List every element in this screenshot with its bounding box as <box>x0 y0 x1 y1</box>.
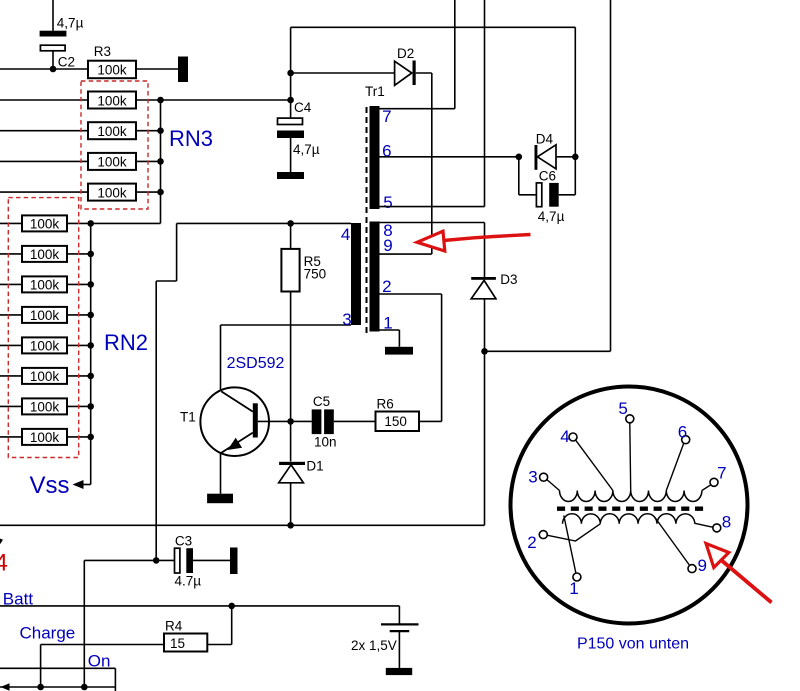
P150 terminal 4 <box>569 433 577 441</box>
svg-text:R6: R6 <box>377 397 394 412</box>
battery 2x 1,5V <box>381 624 419 675</box>
resistor RN2-6 100k <box>22 368 67 384</box>
node D4 left <box>516 154 523 161</box>
wire <box>136 160 161 162</box>
wire (pin 5) <box>380 206 485 208</box>
capacitor C6 <box>536 183 558 207</box>
svg-text:7: 7 <box>382 107 391 126</box>
wire <box>156 280 176 282</box>
node base/R5/C5/D1 <box>287 418 294 425</box>
diode D4 <box>535 145 557 170</box>
svg-text:4: 4 <box>341 225 350 244</box>
wire <box>193 559 230 561</box>
wire <box>574 27 576 157</box>
wire <box>67 375 91 377</box>
resistor R6 <box>376 412 420 432</box>
node C2/R3 junction <box>50 66 57 73</box>
wire (T1 collector) <box>220 325 222 391</box>
svg-text:D4: D4 <box>536 132 554 147</box>
resistor RN3-2 100k <box>88 122 136 139</box>
wire <box>83 560 85 687</box>
wire (pin 1) <box>380 329 400 331</box>
wire (RN2 input 8) <box>0 436 22 438</box>
wire <box>484 0 486 207</box>
wire (P150 pin 7 lead) <box>702 485 711 491</box>
wire <box>290 223 292 249</box>
wire (RN3 input 1) <box>0 99 88 101</box>
resistor RN2-3 100k <box>22 276 67 292</box>
wire (pin 6) <box>380 156 519 158</box>
svg-text:100k: 100k <box>97 155 127 170</box>
arrow (bottom rail, off-page left) <box>1 683 10 690</box>
junction <box>157 158 164 165</box>
svg-text:100k: 100k <box>30 217 60 232</box>
wire (On line) <box>0 667 115 669</box>
svg-text:100k: 100k <box>30 400 60 415</box>
svg-text:3: 3 <box>342 310 351 329</box>
svg-text:D3: D3 <box>500 272 517 287</box>
wire (pin 3 line) <box>221 324 352 326</box>
wire <box>519 194 537 196</box>
wire (P150 pin 1 lead) <box>564 516 576 574</box>
svg-text:RN2: RN2 <box>104 330 148 355</box>
wire (top horizontal) <box>291 26 576 28</box>
wire <box>484 299 486 352</box>
svg-text:100k: 100k <box>30 308 60 323</box>
wire <box>176 223 178 281</box>
transformer Tr1 secondary winding bar (pins 8-9-2-1) <box>370 222 380 332</box>
RN3 outline (dashed) <box>81 81 148 209</box>
wire (T1 emitter) <box>220 453 222 494</box>
terminal bar (R3 output) <box>178 57 188 83</box>
capacitor C5 <box>312 409 334 434</box>
wire <box>291 420 312 422</box>
svg-text:2x 1,5V: 2x 1,5V <box>351 638 397 653</box>
svg-text:150: 150 <box>384 414 407 429</box>
wire (D2 cathode) <box>416 72 432 74</box>
svg-text:750: 750 <box>304 266 327 281</box>
svg-text:100k: 100k <box>30 430 60 445</box>
node R5 top <box>287 220 294 227</box>
svg-text:4,7µ: 4,7µ <box>57 15 84 30</box>
wire <box>136 130 161 132</box>
junction <box>87 403 94 410</box>
transformer Tr1 secondary winding bar (pins 7-6-5) <box>370 106 380 209</box>
diode D1 <box>279 462 305 483</box>
wire <box>290 484 292 526</box>
wire (D2 anode) <box>291 72 395 74</box>
P150 terminal 8 <box>713 524 721 532</box>
wire (T1 base) <box>258 420 291 422</box>
svg-text:10n: 10n <box>314 434 337 449</box>
junction <box>87 220 94 227</box>
wire <box>67 314 91 316</box>
wire <box>398 606 400 625</box>
resistor R3 <box>88 61 136 78</box>
ground (pin 1) <box>385 347 413 355</box>
wire (right vertical) <box>610 0 612 351</box>
wire <box>67 405 91 407</box>
svg-text:RN3: RN3 <box>169 126 213 151</box>
wire (RN2 input 1) <box>0 222 22 224</box>
svg-text:5: 5 <box>618 399 627 418</box>
P150 terminal 1 <box>573 573 581 581</box>
P150 terminal 3 <box>540 473 548 481</box>
node <box>81 684 88 691</box>
wire (P150 pin 3 lead) <box>547 479 560 490</box>
terminal bar (C3 output) <box>230 548 238 575</box>
wire <box>290 73 292 118</box>
svg-text:C3: C3 <box>175 534 192 549</box>
junction <box>157 127 164 134</box>
P150 terminal 5 <box>626 415 634 423</box>
svg-text:C4: C4 <box>294 100 312 115</box>
resistor RN3-1 100k <box>88 92 136 109</box>
wire <box>431 73 433 254</box>
junction <box>157 189 164 196</box>
wire <box>290 292 292 422</box>
node C3 junction <box>153 557 160 564</box>
wire <box>155 281 157 560</box>
wire (RN2 input 2) <box>0 253 22 255</box>
wire <box>556 156 575 158</box>
ground (C4) <box>277 172 304 179</box>
node Batt/R4 <box>228 603 235 610</box>
node D1 bottom <box>287 522 294 529</box>
wire (RN3 input 3) <box>0 160 88 162</box>
wire (Batt line) <box>0 605 399 607</box>
wire <box>484 351 486 525</box>
wire <box>518 157 520 195</box>
wire (RN2 input 6) <box>0 375 22 377</box>
wire (RN2 input 3) <box>0 283 22 285</box>
wire (RN3 input 4) <box>0 191 88 193</box>
wire (RN3 input 2) <box>0 130 88 132</box>
wire (P150 pin 6 lead) <box>666 443 684 491</box>
wire <box>419 420 442 422</box>
svg-text:3: 3 <box>528 467 537 486</box>
junction <box>87 342 94 349</box>
transistor T1 2SD592 <box>200 387 269 456</box>
wire <box>0 68 88 70</box>
transformer Tr1 primary winding bar (pins 4-3) <box>351 223 361 325</box>
svg-text:D2: D2 <box>397 46 414 61</box>
P150 top winding <box>560 491 702 502</box>
svg-text:1: 1 <box>569 579 578 598</box>
ground (T1 emitter) <box>207 494 233 504</box>
P150 terminal 2 <box>539 531 547 539</box>
junction <box>87 373 94 380</box>
svg-text:4.7µ: 4.7µ <box>175 574 202 589</box>
node D3 bottom <box>481 348 488 355</box>
wire (pin 7) <box>380 108 455 110</box>
wire <box>574 157 576 195</box>
node C4 / RN3 line <box>287 97 294 104</box>
label (cropped tick) <box>0 539 3 545</box>
wire <box>290 27 292 73</box>
wire (long horizontal) <box>0 524 485 526</box>
svg-text:100k: 100k <box>97 63 127 78</box>
junction <box>87 434 94 441</box>
svg-text:4,7µ: 4,7µ <box>538 209 565 224</box>
junction <box>87 312 94 319</box>
wire <box>84 559 156 561</box>
svg-text:100k: 100k <box>97 124 127 139</box>
wire (pin 9) <box>380 253 432 255</box>
wire (RN2 input 4) <box>0 314 22 316</box>
P150 terminal 9 <box>688 565 696 573</box>
svg-text:D1: D1 <box>306 458 323 473</box>
wire <box>136 68 178 70</box>
resistor RN2-1 100k <box>22 215 67 231</box>
wire <box>207 644 231 646</box>
wire (RN3 common bus) <box>160 100 162 223</box>
wire (P150 pin 2 lead) <box>547 524 600 541</box>
wire (RN2 input 5) <box>0 344 22 346</box>
capacitor C3 <box>175 548 194 573</box>
Vss arrow <box>73 480 91 489</box>
junction <box>157 97 164 104</box>
capacitor C2 <box>40 0 67 69</box>
resistor RN2-2 100k <box>22 246 67 262</box>
svg-text:Tr1: Tr1 <box>365 84 385 99</box>
svg-text:2SD592: 2SD592 <box>227 355 285 372</box>
wire <box>441 294 443 421</box>
wire <box>67 436 91 438</box>
wire <box>398 330 400 347</box>
resistor RN3-3 100k <box>88 153 136 170</box>
svg-text:5: 5 <box>383 193 392 212</box>
wire (P150 pin 4 lead) <box>576 440 613 491</box>
P150 terminal 7 <box>710 478 718 486</box>
svg-text:9: 9 <box>383 236 392 255</box>
P150 bottom winding <box>563 514 695 524</box>
junction <box>87 251 94 258</box>
diode D3 <box>471 277 496 299</box>
wire <box>136 191 161 193</box>
annotation arrow (points at P150 pin 8) <box>706 544 772 603</box>
svg-text:Vss: Vss <box>30 472 70 499</box>
resistor RN2-4 100k <box>22 307 67 323</box>
svg-text:T1: T1 <box>180 409 196 424</box>
resistor RN2-5 100k <box>22 337 67 353</box>
wire <box>161 99 291 101</box>
svg-text:4: 4 <box>0 550 8 577</box>
svg-text:4,7µ: 4,7µ <box>293 142 320 157</box>
node C4 top / D2 anode <box>287 70 294 77</box>
wire (P150 pin 5 lead) <box>629 423 632 491</box>
capacitor C4 <box>277 118 304 138</box>
svg-text:2: 2 <box>527 533 536 552</box>
svg-text:100k: 100k <box>97 93 127 108</box>
svg-text:C2: C2 <box>58 54 75 69</box>
P150 transformer bottom-view circle <box>511 387 748 624</box>
svg-text:R4: R4 <box>165 618 183 633</box>
svg-text:100k: 100k <box>30 339 60 354</box>
wire <box>67 344 91 346</box>
resistor R5 <box>281 249 299 292</box>
wire (RN2 common bus) <box>90 223 92 484</box>
svg-text:C6: C6 <box>539 168 556 183</box>
RN2 outline (dashed) <box>8 198 78 458</box>
wire <box>156 559 174 561</box>
wire (pin 2) <box>380 293 442 295</box>
wire <box>136 99 161 101</box>
wire <box>334 420 376 422</box>
wire <box>290 138 292 172</box>
P150 terminal 6 <box>682 436 690 444</box>
svg-text:6: 6 <box>678 422 687 441</box>
wire <box>454 0 456 109</box>
wire (pin 8) <box>380 222 485 224</box>
P150 core (dashed) <box>557 507 706 511</box>
wire <box>559 194 576 196</box>
wire <box>485 350 611 352</box>
svg-text:C5: C5 <box>313 394 330 409</box>
svg-text:Charge: Charge <box>20 624 76 643</box>
wire <box>67 283 91 285</box>
resistor R4 <box>164 634 207 652</box>
node D4 right <box>572 154 579 161</box>
svg-text:R3: R3 <box>94 44 111 59</box>
svg-text:100k: 100k <box>97 185 127 200</box>
wire <box>67 222 161 224</box>
svg-text:9: 9 <box>698 556 707 575</box>
svg-text:8: 8 <box>722 512 731 531</box>
svg-text:100k: 100k <box>30 278 60 293</box>
svg-text:P150 von unten: P150 von unten <box>577 636 689 653</box>
wire (RN2 input 7) <box>0 405 22 407</box>
wire (P150 pin 9 lead) <box>655 518 690 566</box>
wire <box>114 668 116 691</box>
svg-text:15: 15 <box>170 636 185 651</box>
junction <box>87 281 94 288</box>
wire <box>290 421 292 461</box>
transformer Tr1 core (dashed) <box>366 107 368 334</box>
node <box>37 684 44 691</box>
wire <box>484 223 486 278</box>
wire <box>67 253 91 255</box>
diode D2 <box>395 61 416 86</box>
svg-text:100k: 100k <box>30 247 60 262</box>
svg-text:6: 6 <box>382 142 391 161</box>
wire (P150 pin 8 lead) <box>695 523 713 527</box>
wire (bottom rail) <box>0 686 115 688</box>
wire <box>231 606 233 645</box>
annotation arrow (points at pins 8/9) <box>417 231 531 251</box>
wire (Charge line) <box>41 644 164 646</box>
svg-text:7: 7 <box>717 463 726 482</box>
resistor RN2-8 100k <box>22 429 67 445</box>
wire (pin 4 line) <box>177 222 351 224</box>
resistor RN3-4 100k <box>88 184 136 201</box>
svg-text:100k: 100k <box>30 369 60 384</box>
wire <box>40 645 42 688</box>
svg-text:4: 4 <box>560 427 569 446</box>
resistor RN2-7 100k <box>22 398 67 414</box>
